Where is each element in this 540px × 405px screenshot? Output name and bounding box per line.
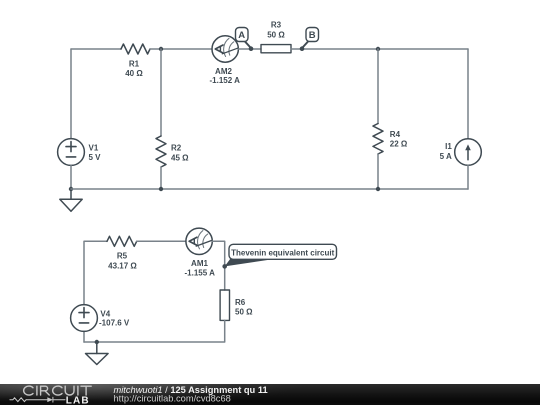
- svg-text:B: B: [309, 30, 316, 41]
- svg-text:50 Ω: 50 Ω: [267, 30, 285, 39]
- svg-text:R6: R6: [235, 298, 246, 307]
- svg-text:43.17 Ω: 43.17 Ω: [108, 261, 137, 270]
- svg-text:40 Ω: 40 Ω: [125, 69, 143, 78]
- svg-text:A: A: [238, 30, 245, 41]
- label R5 value: [108, 252, 137, 271]
- svg-text:R5: R5: [117, 252, 128, 261]
- wire R4 upper: [377, 49, 379, 124]
- label V4 value: [99, 310, 130, 328]
- wire R3 to right corner: [291, 48, 468, 50]
- svg-text:-1.155 A: -1.155 A: [185, 268, 216, 277]
- svg-text:http://circuitlab.com/cvd8c68: http://circuitlab.com/cvd8c68: [114, 394, 231, 404]
- svg-text:LAB: LAB: [66, 395, 90, 405]
- svg-text:45 Ω: 45 Ω: [171, 153, 189, 162]
- wire R4 lower: [377, 154, 379, 189]
- label AM2 value: [210, 67, 241, 85]
- wire R2 lower: [160, 167, 162, 189]
- ammeter AM1: [186, 228, 212, 254]
- junction node callout anchor: [222, 264, 227, 269]
- svg-text:22 Ω: 22 Ω: [390, 140, 408, 149]
- node A label: [236, 28, 251, 48]
- wire left rail lower (V1 to bottom): [70, 165, 72, 189]
- wire bottom rail (top circuit): [71, 188, 468, 190]
- wire AM2 to R3: [239, 48, 262, 50]
- wire R2 upper: [160, 49, 162, 136]
- label R6 value: [235, 298, 253, 316]
- svg-text:V1: V1: [89, 143, 99, 152]
- junction node top of R4: [376, 47, 380, 51]
- resistor R3 (box): [261, 45, 291, 53]
- annotation callout Thevenin: [225, 244, 337, 266]
- label R1 value: [125, 60, 143, 79]
- wire top rail left (V1 to R1): [71, 48, 121, 50]
- node A dot: [249, 46, 254, 51]
- svg-text:-1.152 A: -1.152 A: [210, 76, 241, 85]
- ground (top circuit): [60, 189, 82, 211]
- voltage source V4: [71, 305, 98, 332]
- junction node ground (bottom circuit): [95, 340, 99, 344]
- svg-text:50 Ω: 50 Ω: [235, 307, 253, 316]
- node B dot: [300, 46, 305, 51]
- label R2 value: [171, 144, 189, 163]
- junction node R2 bottom: [159, 187, 163, 191]
- label I1 value: [440, 142, 453, 161]
- svg-text:AM2: AM2: [215, 67, 232, 76]
- wire right rail lower (I1 to bottom): [467, 165, 469, 189]
- wire R1 to AM2: [150, 48, 212, 50]
- resistor R4: [373, 124, 383, 155]
- label V1 value: [89, 143, 102, 162]
- svg-text:AM1: AM1: [191, 259, 208, 268]
- svg-text:Thevenin equivalent circuit: Thevenin equivalent circuit: [231, 248, 334, 257]
- junction node R1/R2: [159, 47, 163, 51]
- svg-text:I1: I1: [445, 142, 452, 151]
- wire R5 to AM1: [137, 240, 186, 242]
- wire right rail upper (corner to I1): [467, 49, 469, 139]
- svg-text:5 A: 5 A: [440, 152, 452, 161]
- ground (bottom circuit): [86, 342, 109, 365]
- resistor R1: [121, 44, 150, 54]
- label AM1 value: [185, 259, 216, 277]
- svg-text:R3: R3: [271, 20, 282, 29]
- wire V4 to bottom rail: [83, 331, 85, 342]
- svg-text:-107.6 V: -107.6 V: [99, 319, 130, 328]
- node B label: [303, 28, 319, 48]
- wire bottom-circuit top-left corner to R5: [84, 241, 107, 304]
- wire left rail upper (top to V1): [70, 49, 72, 139]
- wire AM1 to right corner: [212, 241, 224, 290]
- resistor R6 (box): [220, 290, 229, 320]
- current source I1: [455, 139, 482, 166]
- svg-text:5 V: 5 V: [89, 153, 102, 162]
- svg-text:V4: V4: [100, 310, 110, 319]
- label R4 value: [390, 130, 408, 149]
- junction node V1 bottom: [69, 187, 73, 191]
- wire R6 to bottom rail: [84, 320, 225, 342]
- voltage source V1: [58, 139, 85, 166]
- resistor R5: [107, 236, 137, 246]
- ammeter AM2: [212, 36, 238, 62]
- junction node R4 bottom: [376, 187, 380, 191]
- label R3 value: [267, 20, 285, 39]
- svg-text:R4: R4: [390, 130, 401, 139]
- svg-text:R1: R1: [129, 60, 140, 69]
- resistor R2: [156, 136, 166, 167]
- svg-text:R2: R2: [171, 144, 182, 153]
